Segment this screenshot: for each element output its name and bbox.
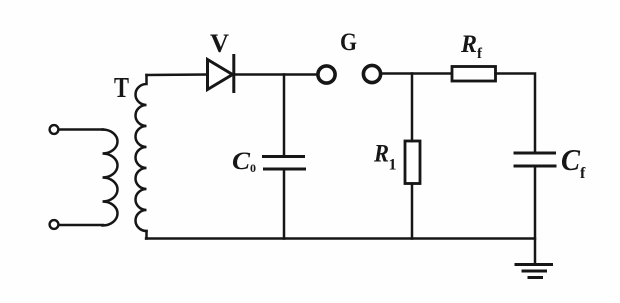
transformer T primary terminal (bottom) — [50, 220, 59, 229]
transformer T primary terminal (top) — [50, 125, 59, 134]
svg-text:R: R — [460, 31, 477, 58]
svg-text:C: C — [232, 148, 250, 175]
svg-text:R: R — [373, 141, 389, 168]
resistor R1 — [405, 141, 420, 184]
capacitor C0 — [264, 157, 305, 170]
svg-text:T: T — [114, 72, 129, 104]
wire Cf bottom drop — [534, 168, 537, 264]
svg-text:1: 1 — [389, 157, 397, 174]
resistor Rf — [452, 67, 496, 82]
wire secondary top to diode — [147, 73, 207, 76]
wire bottom rail — [146, 237, 535, 239]
svg-text:f: f — [580, 165, 586, 182]
diode V — [208, 56, 234, 92]
svg-text:C: C — [561, 142, 580, 177]
node C0 branch junction — [283, 75, 286, 156]
spark gap G right electrode — [363, 65, 380, 82]
wire secondary bottom drop — [145, 231, 148, 239]
node R1 branch junction — [411, 74, 414, 142]
transformer T primary winding — [103, 130, 118, 226]
wire Rf to right rail corner — [496, 74, 536, 152]
spark gap G left electrode — [318, 66, 335, 83]
svg-text:G: G — [340, 29, 357, 56]
transformer T secondary winding — [136, 75, 147, 231]
svg-text:0: 0 — [250, 161, 256, 175]
wire R1 bottom drop — [411, 184, 414, 239]
wire diode to spark gap — [234, 73, 317, 76]
wire primary top lead — [59, 128, 103, 131]
svg-text:V: V — [210, 29, 229, 58]
capacitor Cf — [515, 153, 555, 166]
wire C0 bottom drop — [283, 171, 286, 239]
ground — [516, 265, 552, 278]
wire gap to Rf — [381, 72, 452, 75]
wire primary bottom lead — [59, 224, 103, 227]
